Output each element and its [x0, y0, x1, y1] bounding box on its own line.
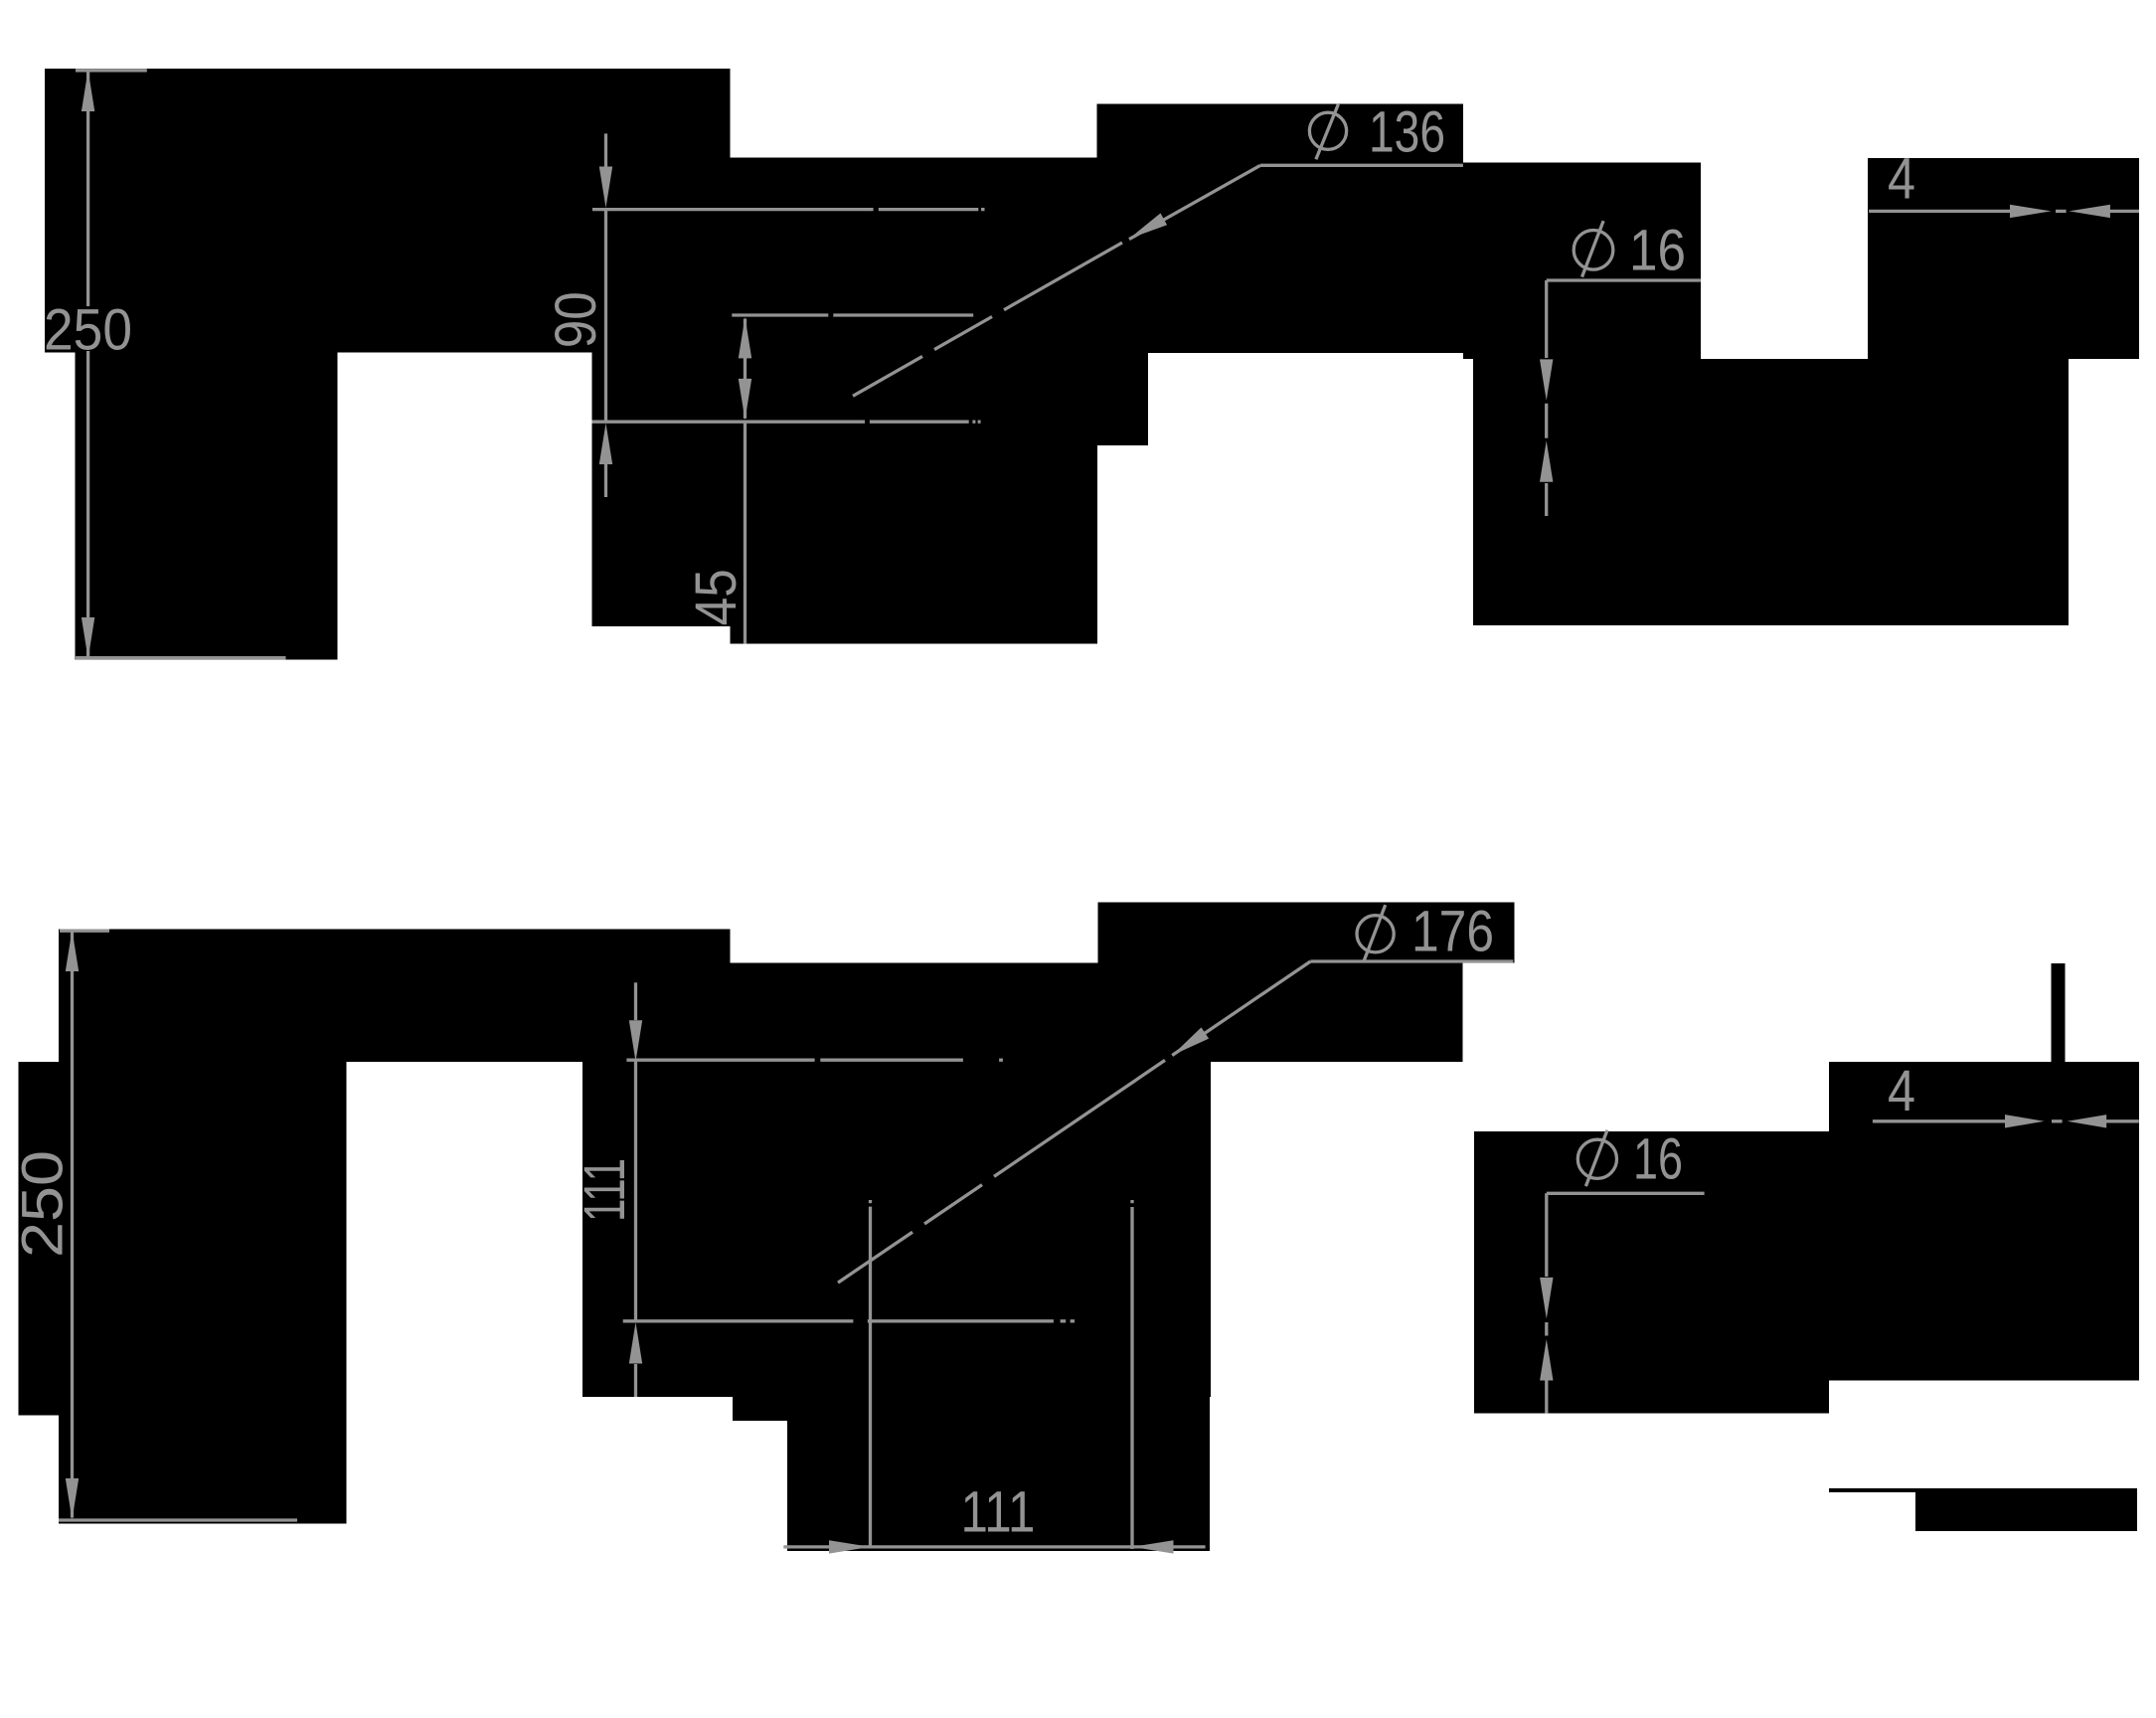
- view2 dim111 bottom line: [783, 1545, 1205, 1548]
- view1 dim250 line lower segment: [86, 351, 89, 657]
- view1 dim45 arrow down: [739, 379, 751, 421]
- svg-text:176: 176: [1411, 899, 1494, 963]
- view2 hole centerline x875: [869, 1207, 872, 1548]
- view1 o136 leader slant solid upper: [1129, 165, 1260, 239]
- view2 black panel o16 box left part: [1474, 1131, 1829, 1414]
- view2 black panel o176 box: [1098, 903, 1515, 963]
- view1 centerline y317 seg2: [833, 313, 973, 316]
- view2 dim4 arrow left: [2068, 1115, 2107, 1127]
- view1 dim45 tail below: [744, 422, 746, 643]
- view1 black panel right mass lower: [1473, 359, 2069, 625]
- view1 centerline y317 seg1: [732, 313, 828, 316]
- view2 black sliver left of 250 text: [19, 1062, 60, 1415]
- view1 o16 arrow up: [1540, 440, 1553, 482]
- view2 dim111 arrow right at x875: [829, 1540, 871, 1553]
- view1 extension line y210 seg2: [879, 208, 979, 211]
- view1 o136 leader slant solid lower: [1004, 243, 1122, 310]
- view1 dim90 bottom arrow tail: [604, 462, 607, 497]
- view1 o136 leader arrowhead: [1129, 213, 1167, 239]
- view2 o16 lower arrow tail: [1545, 1380, 1548, 1414]
- view2 o16 middle dash: [1545, 1322, 1548, 1336]
- view2 extension line y1329 seg2: [868, 1319, 1054, 1322]
- view2 dim111 arrow up: [629, 1322, 642, 1364]
- view1 dim250 arrow up: [82, 71, 94, 112]
- view1 o16 middle dash: [1545, 404, 1548, 438]
- view2 o176 leader slant dash2: [838, 1232, 912, 1283]
- view2 top extension line: [60, 930, 109, 933]
- view1 o136 leader shoulder: [1260, 164, 1463, 167]
- view2 black panel dim4 box: [1829, 1062, 2139, 1131]
- view1 dim4 arrow left: [2069, 205, 2110, 218]
- view2 black panel middle mass lower: [787, 1397, 1210, 1551]
- view1 black panel upper-left: [45, 69, 731, 353]
- view2 black panel o16 box right part: [1829, 1131, 2139, 1380]
- view1 extension line y424 seg2: [870, 421, 969, 424]
- view2 dim111 arrow down: [629, 1020, 642, 1062]
- view2 extension line y1329 dot2: [1071, 1319, 1075, 1322]
- view1 extension line y424 dot1: [972, 421, 975, 424]
- view2 black panel middle mass upper: [582, 1062, 1211, 1397]
- view1 dim90 arrow up: [599, 424, 612, 465]
- view2 dim4 arrow right: [2005, 1115, 2045, 1127]
- view1 black panel o16 box: [1463, 162, 1701, 359]
- view1 extension line y210 seg1: [592, 208, 874, 211]
- view1 o136 diameter symbol slash: [1316, 104, 1339, 160]
- view1 o136 diameter symbol circle: [1309, 112, 1346, 149]
- view2 o176 leader slant solid upper: [1172, 961, 1310, 1056]
- view1 dim4 middle dash: [2056, 210, 2067, 213]
- view2 o176 leader slant dash1: [924, 1185, 982, 1224]
- view1 dim45 arrow up: [739, 317, 751, 359]
- view1 extension line y424 seg1: [592, 421, 866, 424]
- svg-text:250: 250: [10, 1150, 75, 1258]
- view2 extension line y1329 dot1: [1061, 1319, 1067, 1322]
- view2 o16 diameter symbol slash: [1585, 1130, 1607, 1186]
- view2 hole centerline x875 dot: [869, 1200, 872, 1203]
- view2 dim111 arrow left at x1139: [1132, 1540, 1174, 1553]
- view2 black small step: [733, 1397, 787, 1421]
- view1 black panel dim4 box: [1868, 158, 2139, 359]
- view1 o136 leader slant dash1: [934, 317, 992, 350]
- view2 dim4 line right: [2104, 1119, 2139, 1122]
- svg-text:45: 45: [684, 569, 748, 625]
- view1 dim90 line middle: [604, 210, 607, 423]
- svg-text:4: 4: [1888, 1059, 1915, 1123]
- svg-text:16: 16: [1633, 1126, 1683, 1191]
- view2 o16 leader underline: [1547, 1192, 1705, 1195]
- view2 dim4 middle dash: [2052, 1119, 2063, 1122]
- view1 black panel left mass lower: [76, 353, 338, 660]
- view2 o16 arrow down: [1540, 1278, 1553, 1319]
- view2 extension line y1329 seg1: [623, 1319, 854, 1322]
- view2 extension centerline x1139: [1130, 1207, 1133, 1549]
- svg-text:111: 111: [573, 1158, 637, 1222]
- view1 top extension line: [76, 69, 147, 72]
- view2 black panel left mass: [59, 1062, 347, 1524]
- view1 extension line y210 dot: [981, 208, 985, 211]
- view1 o16 leader vertical: [1545, 280, 1548, 358]
- view1 o16 lower arrow tail: [1545, 483, 1548, 516]
- view1 bottom extension line: [76, 656, 286, 659]
- svg-text:111: 111: [961, 1480, 1036, 1545]
- view2 extension line y1066 dot: [999, 1059, 1003, 1062]
- view1 black panel 45-text column: [592, 353, 732, 627]
- view2 dim111 line middle: [634, 1060, 637, 1321]
- view1 dim250 line upper segment: [86, 73, 89, 307]
- view2 o16 arrow up: [1540, 1339, 1553, 1381]
- view1 dim4 line left: [1869, 210, 2010, 213]
- view2 extension line y1066 seg1: [626, 1059, 814, 1062]
- view2 black panel top band: [59, 930, 730, 1062]
- view2 black panel wide band: [730, 963, 1462, 1062]
- view2 o176 diameter symbol slash: [1364, 905, 1386, 960]
- view2 dim4 line left: [1873, 1119, 2008, 1122]
- view2 black bar bottom right: [1915, 1488, 2137, 1531]
- view1 black small column under o136 box: [1097, 353, 1148, 445]
- svg-text:136: 136: [1369, 100, 1445, 165]
- view1 o16 diameter symbol circle: [1574, 231, 1613, 270]
- view2 black vertical bar above dim4 box: [2051, 963, 2065, 1062]
- view1 dim90 arrow down: [599, 167, 612, 209]
- view1 dim45 line between arrows: [744, 319, 746, 419]
- view2 o176 leader slant solid lower: [994, 1060, 1165, 1176]
- view1 o136 leader slant dash2: [853, 356, 922, 396]
- view1 extension line y424 dot2: [978, 421, 981, 424]
- view1 dim250 arrow down: [82, 617, 94, 659]
- svg-text:90: 90: [544, 291, 608, 348]
- view2 dim111 line upper: [634, 982, 637, 1020]
- view1 dim4 arrow right: [2010, 205, 2052, 218]
- svg-text:250: 250: [44, 297, 132, 362]
- svg-text:4: 4: [1888, 147, 1915, 212]
- view2 black thin line bottom right: [1829, 1488, 1915, 1492]
- view1 o16 diameter symbol slash: [1582, 221, 1604, 276]
- view2 dim250 line: [71, 933, 74, 1518]
- view2 extension centerline x1139 dot: [1130, 1200, 1133, 1203]
- view1 o16 arrow down: [1540, 359, 1553, 401]
- view2 dim111 lower arrow tail: [634, 1364, 637, 1397]
- view2 extension line y1066 seg2: [820, 1059, 963, 1062]
- svg-text:16: 16: [1629, 219, 1686, 283]
- view2 o176 leader shoulder: [1310, 959, 1513, 962]
- view2 o16 leader vertical: [1545, 1193, 1548, 1277]
- view1 black panel o136 box: [1097, 104, 1463, 158]
- view2 dim250 arrow down: [66, 1478, 79, 1520]
- view1 black panel middle band: [730, 157, 1097, 643]
- view2 dim250 arrow up: [66, 931, 79, 972]
- view2 o176 diameter symbol circle: [1357, 916, 1394, 952]
- view1 dim4 line right: [2106, 210, 2139, 213]
- view2 bottom extension line: [59, 1518, 297, 1521]
- view1 black panel band right of o136 box: [1097, 157, 1463, 353]
- view1 o16 leader underline: [1547, 278, 1701, 281]
- view2 o16 diameter symbol circle: [1577, 1139, 1616, 1178]
- view2 o176 leader arrowhead: [1172, 1027, 1209, 1055]
- view1 dim90 line upper: [604, 133, 607, 171]
